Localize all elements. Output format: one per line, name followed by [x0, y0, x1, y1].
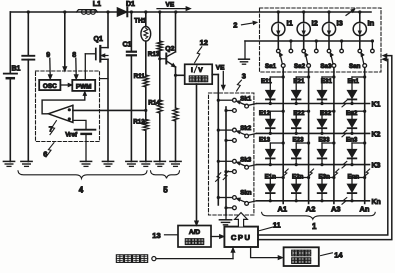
- bus line CPU to current sources (outer): [258, 54, 392, 240]
- svg-text:An: An: [360, 205, 370, 214]
- wire Q1 source down: [107, 59, 109, 161]
- svg-text:R13: R13: [148, 51, 160, 58]
- row line K1: [248, 100, 380, 108]
- diode E13: [259, 137, 285, 167]
- ground (switch box bus): [219, 220, 231, 225]
- label 11 tick: [260, 221, 281, 231]
- svg-text:K3: K3: [372, 163, 381, 170]
- switch Sk1: [217, 95, 252, 112]
- bus B (ground bus in switch box): [225, 107, 227, 219]
- block PWM: [72, 80, 95, 91]
- svg-text:E32: E32: [320, 110, 332, 117]
- wire CPU to defect notifier: [251, 247, 283, 259]
- svg-text:B1: B1: [12, 66, 21, 73]
- battery B1: [4, 12, 21, 162]
- capacitor C0 input filter: [22, 10, 34, 161]
- svg-text:I3: I3: [337, 19, 343, 28]
- block CPU 11: [224, 227, 258, 247]
- svg-text:E12: E12: [259, 110, 271, 117]
- diode E1n: [265, 174, 285, 203]
- diode E31: [318, 75, 336, 105]
- svg-text:Sa1: Sa1: [265, 63, 277, 70]
- ground (input capacitor): [21, 161, 32, 166]
- terminal label An: [360, 205, 370, 214]
- ground (Sa bus): [239, 59, 250, 64]
- inductor L1: [77, 1, 102, 14]
- diode En1: [348, 75, 367, 105]
- svg-text:Kn: Kn: [372, 199, 381, 206]
- switch San: [349, 39, 374, 70]
- label VE with arrow (top): [157, 1, 191, 10]
- svg-text:Sa3: Sa3: [320, 63, 332, 70]
- diode En2: [346, 110, 366, 135]
- resistor R14: [148, 57, 162, 161]
- column line A3: [334, 68, 339, 204]
- ground (R12): [140, 161, 151, 166]
- label 7 with pointer: [49, 121, 57, 135]
- brace 1 display panel: [262, 212, 376, 230]
- diode E21: [292, 75, 310, 105]
- current source I2: [297, 10, 318, 49]
- svg-text:San: San: [349, 63, 361, 70]
- svg-text:E13: E13: [259, 137, 271, 144]
- label 6 with pointer: [43, 143, 54, 159]
- node 8 PWM control input: [72, 52, 78, 79]
- diode E11: [261, 75, 285, 105]
- svg-text:L1: L1: [93, 1, 101, 8]
- switch Sa1: [265, 39, 293, 70]
- svg-text:TH1: TH1: [134, 17, 146, 24]
- label 3 with pointer: [237, 72, 246, 91]
- diode E12: [259, 110, 285, 135]
- svg-text:I1: I1: [287, 19, 293, 28]
- brace 5 bias section: [151, 171, 180, 195]
- transistor Q2: [160, 45, 176, 67]
- ground (Q2 emitter resistor): [170, 161, 181, 166]
- block defect notifier 14: [284, 247, 319, 266]
- svg-text:VE: VE: [216, 64, 225, 71]
- CPU control hollow arrow to switch box: [235, 213, 248, 227]
- svg-text:2: 2: [233, 21, 237, 30]
- terminal label A1: [278, 205, 288, 214]
- diode E33: [318, 137, 336, 167]
- svg-text:E31: E31: [321, 78, 333, 85]
- diode E22: [292, 110, 310, 135]
- label 14 tick: [321, 250, 344, 259]
- column line A1: [283, 68, 288, 204]
- svg-text:A/D: A/D: [189, 229, 201, 236]
- wire feedback to op-amp input: [73, 109, 147, 112]
- svg-text:V: V: [198, 67, 203, 74]
- label 13 tick: [152, 231, 177, 240]
- svg-text:Enn: Enn: [348, 174, 360, 181]
- wire control supply drop: [63, 10, 67, 71]
- diode E3n: [318, 174, 336, 203]
- svg-text:In: In: [368, 19, 375, 28]
- svg-text:E21: E21: [293, 78, 305, 85]
- wire OSC to PWM arrow: [60, 83, 72, 86]
- svg-text:A3: A3: [331, 205, 341, 214]
- op-amp U7 error amplifier: [48, 105, 73, 122]
- resistor R12: [133, 110, 148, 161]
- bus line CPU to current sources (inner): [258, 58, 388, 235]
- diode D1: [117, 1, 135, 16]
- row line Kn: [248, 198, 380, 206]
- terminal label A2: [306, 205, 316, 214]
- switch Sk3: [217, 156, 252, 173]
- node 9 OSC control input: [46, 52, 52, 79]
- bus break marks (switch box): [216, 171, 229, 181]
- svg-text:Q1: Q1: [94, 36, 103, 43]
- svg-text:K2: K2: [372, 131, 381, 138]
- svg-text:Q2: Q2: [165, 45, 174, 52]
- wire Q2 collector to rail: [174, 10, 177, 51]
- ground (R14): [154, 161, 165, 166]
- block OSC: [39, 80, 60, 90]
- label 12 with pointer: [195, 38, 208, 63]
- row switch dashed box 3: [209, 93, 254, 215]
- diode Enn: [348, 174, 367, 203]
- svg-text:I: I: [191, 67, 193, 74]
- label 2 with arrow: [233, 21, 257, 30]
- svg-text:14: 14: [334, 250, 343, 259]
- wire Q1 drain to rail: [106, 10, 109, 47]
- resistor R11: [134, 41, 149, 110]
- switch Sa2: [294, 39, 318, 70]
- svg-text:5: 5: [163, 185, 168, 194]
- thermistor TH1: [134, 10, 150, 41]
- svg-text:Sk2: Sk2: [240, 125, 252, 132]
- wire Q2 emitter node: [174, 67, 185, 77]
- ground (B1): [3, 161, 14, 166]
- label image signal input: [116, 255, 156, 263]
- ground bus rail (Sa box): [245, 41, 373, 58]
- switch Sa3: [320, 39, 343, 70]
- wire A/D to CPU: [211, 235, 224, 239]
- svg-text:Sk1: Sk1: [240, 95, 252, 102]
- current source In: [353, 10, 374, 49]
- transistor Q1 (MOSFET): [85, 36, 108, 80]
- column line A2: [309, 68, 314, 204]
- svg-text:3: 3: [242, 72, 246, 81]
- svg-text:A2: A2: [306, 205, 316, 214]
- ground (C1): [126, 161, 137, 166]
- svg-text:CPU: CPU: [231, 233, 252, 242]
- svg-text:13: 13: [152, 231, 160, 240]
- wire op-amp output to PWM: [42, 92, 86, 114]
- resistor Q2 emitter: [173, 75, 178, 161]
- wire PWM sense tap to Q1 source: [100, 78, 109, 80]
- block A/D converter 13: [178, 226, 211, 248]
- row line K3: [248, 161, 380, 169]
- resistor R13: [148, 10, 163, 58]
- wire image signal to CPU: [156, 248, 235, 259]
- svg-text:PWM: PWM: [76, 84, 92, 91]
- capacitor C1 output: [123, 10, 136, 161]
- svg-text:Skn: Skn: [240, 190, 252, 197]
- svg-text:En1: En1: [348, 78, 360, 85]
- ground (Q1 source): [102, 161, 113, 166]
- ground (Vref): [80, 161, 91, 166]
- svg-text:4: 4: [79, 185, 84, 194]
- current source I1: [272, 10, 293, 49]
- svg-text:E11: E11: [261, 78, 272, 85]
- brace 4 power section: [18, 171, 147, 195]
- diode En3: [346, 137, 366, 167]
- control block dashed box 6: [36, 71, 100, 142]
- svg-text:12: 12: [200, 38, 208, 47]
- rail continuation arrow (top right): [346, 9, 355, 15]
- wire I/V to A/D: [195, 84, 199, 225]
- terminal label A3: [331, 205, 341, 214]
- svg-text:11: 11: [273, 221, 281, 230]
- svg-text:En3: En3: [346, 137, 358, 144]
- svg-text:OSC: OSC: [43, 83, 57, 90]
- svg-text:E22: E22: [293, 110, 305, 117]
- svg-text:E33: E33: [319, 137, 331, 144]
- current source I3: [322, 10, 342, 49]
- svg-text:Vref: Vref: [65, 132, 78, 139]
- svg-text:VE: VE: [166, 1, 175, 8]
- svg-text:E2n: E2n: [292, 174, 304, 181]
- label VE with arrow (to switch box): [216, 64, 225, 89]
- svg-text:E23: E23: [293, 137, 305, 144]
- column line An: [365, 68, 370, 204]
- reference source Vref: [65, 120, 95, 161]
- wire top supply rail VE: [10, 11, 371, 13]
- diode E32: [318, 110, 336, 135]
- svg-text:Sk3: Sk3: [240, 156, 252, 163]
- switch Skn: [217, 190, 252, 210]
- svg-text:C1: C1: [123, 41, 132, 48]
- svg-text:E1n: E1n: [265, 174, 277, 181]
- block I/V converter 12: [185, 64, 213, 84]
- row line K2: [248, 130, 380, 138]
- svg-text:K1: K1: [372, 102, 381, 109]
- svg-text:E3n: E3n: [319, 174, 331, 181]
- current source dashed box 2: [260, 8, 382, 72]
- svg-text:En2: En2: [346, 110, 358, 117]
- switch Sk2: [217, 125, 252, 142]
- svg-text:A1: A1: [278, 205, 288, 214]
- diode E2n: [292, 174, 310, 203]
- svg-text:I2: I2: [312, 19, 318, 28]
- svg-text:1: 1: [312, 222, 317, 231]
- wire I/V output to Sk bus: [212, 75, 218, 206]
- diode E23: [292, 137, 310, 167]
- svg-text:Sa2: Sa2: [294, 63, 306, 70]
